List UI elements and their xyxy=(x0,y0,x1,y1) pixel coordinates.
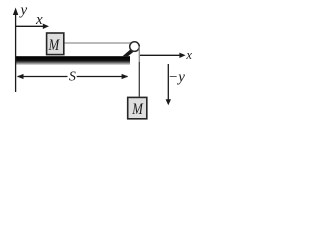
svg-text:M: M xyxy=(131,101,144,118)
svg-text:x: x xyxy=(35,12,43,28)
svg-text:y: y xyxy=(19,3,28,19)
svg-text:x: x xyxy=(185,48,192,62)
svg-text:−y: −y xyxy=(168,70,185,86)
svg-text:S: S xyxy=(69,69,76,84)
svg-text:M: M xyxy=(48,37,61,54)
